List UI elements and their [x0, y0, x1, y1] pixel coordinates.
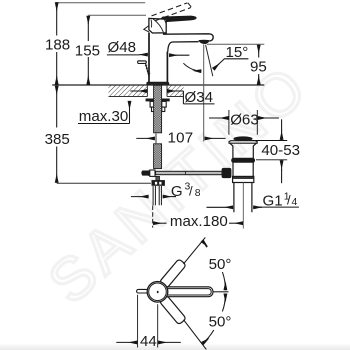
dim G1 1/4 arrows [207, 206, 234, 208]
dim Ø48 inner arrow [169, 54, 189, 56]
deck hatch right [167, 85, 184, 96]
spigot joint [150, 170, 155, 176]
faucet body [149, 33, 167, 83]
dim max180 [153, 222, 166, 224]
max30 riser arrow [129, 108, 131, 124]
stream tilted line [206, 45, 213, 76]
svg-text:188: 188 [45, 37, 70, 54]
G3/8 nut [152, 181, 165, 186]
G1 1/4 underline [259, 206, 299, 208]
watermark [36, 51, 322, 316]
dim 107 [155, 134, 157, 144]
svg-text:4: 4 [292, 197, 298, 208]
Ø63 ext lines [229, 110, 257, 135]
lower 50 arc segments [222, 294, 225, 312]
threaded shank upper [154, 85, 162, 133]
svg-text:max.30: max.30 [79, 108, 129, 125]
dim 40-53 [281, 119, 283, 131]
upper 50 ext line [184, 237, 206, 264]
Ø48 underline [107, 54, 140, 56]
center mark [157, 291, 159, 293]
upper 50 arc segments [222, 272, 225, 290]
svg-text:155: 155 [75, 43, 100, 60]
threaded shank lower [154, 144, 162, 169]
deck hatch left [109, 85, 148, 96]
svg-text:/: / [287, 193, 291, 208]
svg-text:50°: 50° [209, 314, 232, 331]
top ref line 188 [57, 2, 146, 4]
spout top edge [163, 34, 213, 41]
svg-text:max.180: max.180 [170, 213, 228, 230]
svg-text:44: 44 [140, 333, 157, 350]
dim G3/8 arrows [131, 196, 149, 198]
dim Ø48 leader arrow [140, 54, 148, 56]
plug cap lens [234, 137, 252, 141]
spigot cap [142, 171, 150, 175]
mounting nut [150, 101, 166, 107]
flange rim [229, 141, 257, 144]
boss clip [144, 26, 149, 32]
spout stub [137, 289, 151, 293]
lever axis line [214, 291, 229, 293]
rod knob at drain [222, 168, 231, 177]
spout underside [168, 42, 199, 52]
lower step flange [233, 176, 254, 182]
body circles [147, 282, 168, 303]
bottom shadow band [0, 343, 350, 350]
svg-text:Ø63: Ø63 [230, 111, 259, 128]
o-ring [232, 158, 255, 162]
raised lever dashed [152, 3, 192, 21]
svg-text:G1: G1 [263, 192, 283, 209]
svg-text:50°: 50° [209, 256, 232, 273]
dim 155 vertical [87, 24, 89, 78]
svg-text:95: 95 [250, 59, 267, 76]
lower body [233, 162, 253, 176]
deck top line [52, 84, 264, 86]
lower 50 arm [159, 295, 186, 325]
upper body [230, 143, 257, 158]
max30 underline [78, 123, 130, 125]
tailpipe [234, 183, 252, 213]
svg-text:40-53: 40-53 [261, 142, 300, 159]
svg-text:8: 8 [195, 188, 201, 199]
svg-text:385: 385 [45, 131, 70, 148]
svg-text:/: / [189, 184, 193, 199]
dim 95 vertical [258, 53, 260, 78]
dim 188 vertical [56, 10, 58, 78]
dim 385 vertical [56, 94, 58, 176]
svg-text:107: 107 [168, 130, 194, 147]
svg-text:15°: 15° [226, 44, 249, 61]
15deg leader [218, 59, 248, 65]
dim Ø63 [209, 117, 229, 119]
svg-text:Ø48: Ø48 [108, 39, 137, 56]
link below joint [156, 176, 160, 180]
upper 50 arm [159, 259, 186, 289]
ref line 385 bottom [57, 182, 151, 184]
lever arm horizontal [160, 287, 213, 297]
pop-up rod to drain [156, 171, 223, 174]
washer [146, 99, 170, 102]
drain centerline [242, 183, 244, 229]
dim 44 arrows [116, 341, 137, 343]
ref line 95 top [207, 43, 264, 45]
ref line 155 [88, 14, 146, 16]
stream angle arc [183, 63, 201, 71]
deck bottom line [109, 96, 184, 98]
svg-text:Ø34: Ø34 [185, 89, 214, 106]
aerator [199, 40, 209, 43]
stream vertical ext line [203, 45, 205, 142]
base foot [147, 82, 169, 85]
faucet centerline below [152, 206, 154, 228]
lower 50 ext line [184, 320, 207, 350]
hole edges [147, 85, 167, 97]
G3/8 threaded tail [153, 186, 161, 205]
svg-text:G: G [171, 183, 183, 200]
lever paddle [159, 16, 196, 22]
pop-up knob [138, 61, 149, 77]
dim Ø34 arrows [130, 90, 147, 92]
Ø34 underline [183, 103, 214, 105]
40-53 ref lines [251, 141, 288, 160]
Ø34 riser [182, 91, 184, 104]
dim 44 ext lines [138, 295, 158, 348]
cartridge boss [149, 18, 166, 33]
